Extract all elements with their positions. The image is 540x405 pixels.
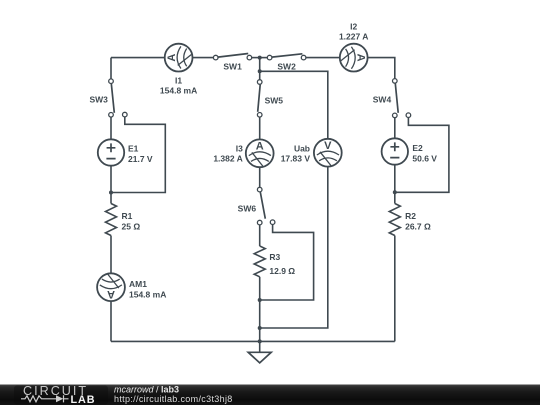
svg-text:mcarrowd / lab3: mcarrowd / lab3 (114, 384, 179, 394)
svg-text:26.7 Ω: 26.7 Ω (405, 221, 431, 231)
svg-text:A: A (354, 54, 366, 62)
svg-text:LAB: LAB (71, 394, 96, 405)
svg-text:21.7 V: 21.7 V (128, 154, 153, 164)
svg-text:SW5: SW5 (265, 95, 284, 105)
svg-text:SW6: SW6 (238, 204, 257, 214)
svg-text:A: A (107, 288, 115, 300)
svg-text:SW1: SW1 (223, 61, 242, 71)
svg-text:V: V (324, 140, 332, 152)
svg-text:1.382 A: 1.382 A (213, 154, 242, 164)
svg-text:SW4: SW4 (373, 95, 392, 105)
svg-text:Uab: Uab (294, 144, 310, 154)
svg-text:R2: R2 (405, 211, 416, 221)
svg-text:SW2: SW2 (277, 61, 296, 71)
svg-text:I3: I3 (236, 144, 243, 154)
svg-text:E1: E1 (128, 143, 139, 153)
svg-text:12.9 Ω: 12.9 Ω (269, 266, 295, 276)
svg-text:I2: I2 (350, 22, 357, 32)
svg-text:17.83 V: 17.83 V (281, 154, 311, 164)
svg-text:R3: R3 (269, 252, 280, 262)
svg-text:A: A (256, 141, 264, 153)
svg-text:E2: E2 (412, 143, 423, 153)
svg-text:http://circuitlab.com/c3t3hj8: http://circuitlab.com/c3t3hj8 (114, 394, 233, 404)
svg-text:A: A (166, 54, 178, 62)
svg-text:50.6 V: 50.6 V (412, 154, 437, 164)
svg-text:154.8 mA: 154.8 mA (160, 86, 197, 96)
svg-text:AM1: AM1 (129, 279, 147, 289)
svg-text:I1: I1 (175, 76, 182, 86)
svg-text:1.227 A: 1.227 A (339, 32, 368, 42)
svg-text:SW3: SW3 (89, 95, 108, 105)
svg-text:154.8 mA: 154.8 mA (129, 290, 166, 300)
svg-text:R1: R1 (122, 211, 133, 221)
svg-text:25 Ω: 25 Ω (122, 221, 141, 231)
